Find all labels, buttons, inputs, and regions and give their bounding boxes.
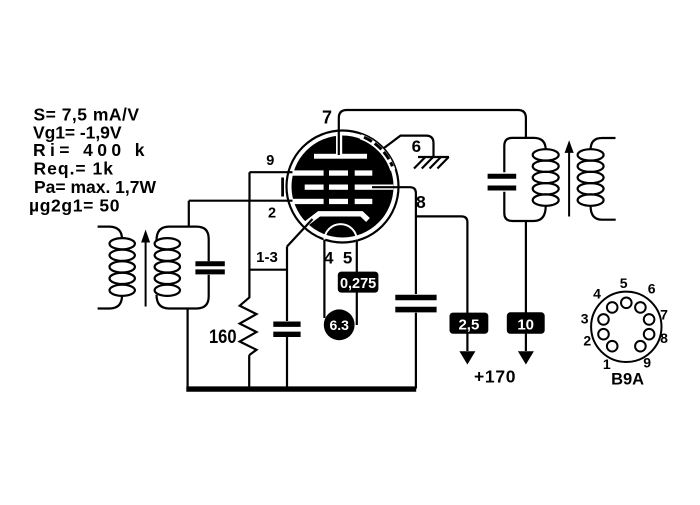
wire: grid node down to cathode network (248, 201, 250, 298)
cathode electrode (303, 214, 369, 227)
chassis ground symbol (414, 157, 449, 169)
tube specification text block (29, 105, 156, 216)
coupling arrow of output transformer (565, 140, 574, 216)
wire: screen branch to +170 feed (416, 216, 468, 351)
voltage label 2,5 (450, 313, 489, 334)
wire: output transformer bottom to +170 feed (525, 221, 527, 351)
primary tuning capacitor of output transformer (488, 176, 517, 188)
B9A pin 1 (603, 341, 618, 372)
output transformer primary winding with loop (504, 138, 558, 221)
node bar joining pins 1 and 3 (249, 269, 287, 271)
svg-text:Pa= max. 1,7W: Pa= max. 1,7W (34, 177, 156, 197)
svg-text:4: 4 (593, 286, 601, 302)
internal shield (dashed arc, pin 6) (361, 137, 393, 170)
wire: pin 9 branch (250, 172, 294, 201)
B9A pin 7 (644, 307, 668, 325)
wire: screen grid to pin 8 corner (372, 187, 416, 294)
svg-text:2: 2 (268, 205, 276, 221)
svg-text:8: 8 (660, 330, 668, 346)
anode plate (314, 154, 367, 159)
supply arrow at 10 branch (518, 351, 534, 364)
input transformer primary winding (98, 227, 135, 309)
B9A pin 3 (581, 310, 609, 326)
coupling arrow of input transformer (141, 230, 150, 307)
svg-text:6: 6 (648, 281, 656, 297)
svg-text:7: 7 (660, 307, 668, 323)
ground bus (186, 386, 416, 391)
wire: bypass capacitor to ground bus (286, 337, 288, 388)
grid row 1 (to pin 9) (293, 170, 373, 175)
svg-text:6.3: 6.3 (329, 317, 349, 333)
svg-text:B9A: B9A (611, 371, 644, 389)
svg-text:1-3: 1-3 (256, 249, 278, 266)
internal tie bar pins 9-2 (281, 178, 284, 197)
svg-text:2: 2 (583, 333, 591, 349)
svg-text:1: 1 (603, 356, 611, 372)
resistor 160 (cathode resistor) (240, 297, 257, 388)
wire: grid node horizontal to tube pin 2 (189, 200, 294, 202)
B9A pin 5 (620, 275, 632, 308)
svg-text:S= 7,5 mA/V: S= 7,5 mA/V (34, 105, 140, 125)
B9A pin 4 (593, 286, 617, 313)
svg-text:9: 9 (643, 355, 651, 371)
tube V1: internal assembly disc (292, 136, 394, 238)
voltage label 10 (507, 312, 545, 334)
svg-text:3: 3 (581, 310, 589, 326)
heater filament loop (324, 224, 356, 256)
grid row 3 (to pin 2) (293, 199, 373, 204)
wire: cathode lead down from pins 1-3 to bypass capacitor (286, 247, 288, 322)
wire: screen capacitor to ground bus (415, 313, 417, 389)
svg-text:9: 9 (266, 153, 274, 169)
svg-text:+170: +170 (474, 367, 516, 387)
wire: pin 6 to chassis (384, 136, 434, 157)
tube V1: envelope (287, 131, 399, 243)
svg-text:10: 10 (517, 316, 534, 333)
wire: secondary top to grid node (188, 201, 190, 227)
svg-text:6: 6 (412, 137, 421, 156)
svg-text:µg2g1= 50: µg2g1= 50 (29, 196, 120, 216)
B9A pin 9 (635, 341, 651, 371)
svg-text:160: 160 (209, 327, 237, 348)
screen bypass capacitor (395, 298, 436, 310)
svg-text:7: 7 (322, 107, 332, 127)
heater current label 0,275 (338, 272, 379, 293)
supply arrow at 2,5 branch (459, 351, 475, 364)
wire: anode pin 7 up and over to output transformer (339, 110, 526, 155)
svg-text:Req.= 1k: Req.= 1k (34, 159, 114, 179)
svg-text:2,5: 2,5 (458, 316, 479, 333)
heater lead pin 5 (356, 240, 358, 326)
svg-text:Ri= 400 k: Ri= 400 k (33, 140, 145, 160)
B9A pin 8 (644, 329, 668, 346)
B9A base outline (591, 292, 661, 362)
B9A pin 6 (635, 281, 656, 313)
svg-text:0,275: 0,275 (340, 276, 376, 292)
grid row 2 (screen grid, to pin 8) (305, 185, 394, 190)
heater lead pin 4 (323, 240, 325, 319)
output transformer secondary winding (578, 138, 616, 220)
wire: secondary bottom to ground bus (187, 309, 189, 389)
B9A pin 2 (583, 329, 608, 349)
svg-text:8: 8 (416, 192, 426, 212)
wire: cathode diagonal lead to pins 1-3 (287, 219, 313, 247)
anode lead channel (pin 7) (336, 134, 342, 155)
cathode bypass capacitor (273, 324, 300, 334)
tuning capacitor of input circuit (195, 264, 224, 272)
svg-text:5: 5 (620, 275, 628, 291)
input transformer secondary (tuned) winding (155, 227, 209, 309)
heater supply label 6.3 (324, 309, 355, 340)
svg-text:5: 5 (343, 248, 352, 267)
svg-text:4: 4 (324, 248, 334, 267)
